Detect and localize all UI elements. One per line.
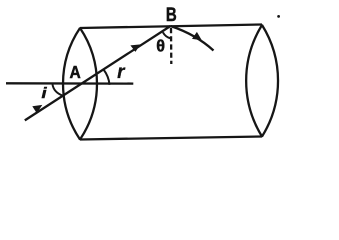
svg-text:i: i [42,86,48,102]
angle i arc [53,85,64,97]
svg-text:θ: θ [156,36,165,55]
dot top right [277,15,280,18]
horizontal normal line through A [6,82,133,85]
arrowhead on incident ray [32,105,42,113]
arrowhead on refracted ray [130,44,140,52]
angle r arc [104,70,110,85]
right end-cap lens of cylinder [246,25,278,137]
angle theta arc [163,32,171,38]
top line of cylinder [80,25,262,29]
incident + refracted ray from lower-left to B [25,26,171,120]
bottom line of cylinder [80,137,262,140]
left end-cap lens of cylinder [63,28,97,140]
svg-text:A: A [70,63,81,82]
svg-text:B: B [166,3,177,26]
dashed normal at B [170,28,173,64]
arrowhead on reflected ray [192,32,202,40]
reflected ray from B [171,26,214,51]
